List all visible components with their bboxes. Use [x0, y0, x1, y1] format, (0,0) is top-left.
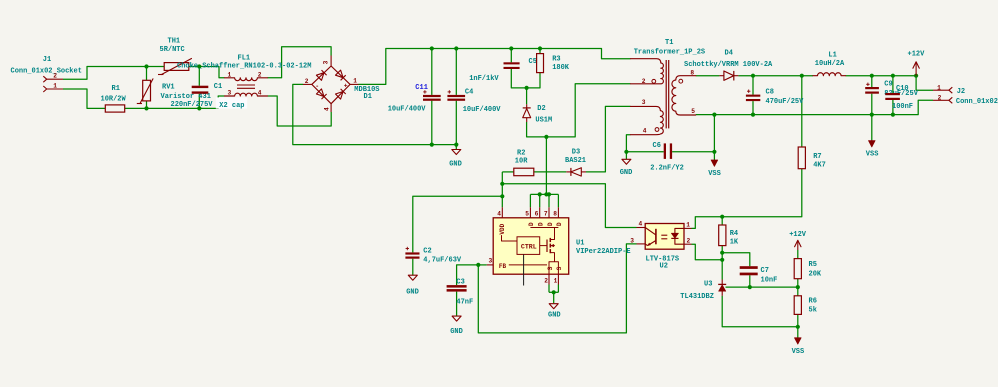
wire bottom primary rail R1 to FL1 pin3	[125, 96, 225, 108]
wire J1 pin2 to top primary rail	[63, 67, 164, 80]
U1 pin stub 8	[557, 207, 559, 218]
ground symbol at DC minus rail	[452, 150, 461, 155]
svg-text:C8: C8	[766, 89, 774, 97]
T1 secondary polarity dot	[679, 79, 683, 83]
svg-text:C10: C10	[896, 85, 909, 93]
svg-text:C5: C5	[529, 58, 537, 66]
svg-text:R7: R7	[813, 153, 821, 161]
wire C3 bottom to GND	[456, 292, 458, 317]
svg-text:R1: R1	[112, 85, 120, 93]
svg-text:C11: C11	[415, 84, 428, 92]
svg-text:2: 2	[258, 71, 262, 78]
junction drain bus pin7	[547, 192, 551, 196]
wire TL431 anode to VSS node	[722, 296, 798, 327]
svg-text:10uH/2A: 10uH/2A	[815, 60, 845, 68]
junction DC rail at C5	[509, 46, 513, 50]
svg-text:D3: D3	[572, 149, 580, 157]
resistor R7	[798, 147, 805, 169]
wire U1 pin7 stub	[548, 194, 550, 207]
U1 internal MOSFET	[540, 228, 555, 259]
svg-text:BAS21: BAS21	[565, 157, 586, 165]
wire snubber node to D2 cathode	[526, 88, 528, 104]
svg-text:4: 4	[639, 221, 643, 228]
svg-text:4,7uF/63V: 4,7uF/63V	[423, 257, 462, 265]
capacitor C9	[865, 83, 879, 94]
capacitor C7	[740, 266, 758, 275]
svg-text:2.2nF/Y2: 2.2nF/Y2	[650, 164, 684, 172]
svg-text:47nF: 47nF	[456, 299, 473, 307]
U2 internal coupling arrows	[661, 235, 667, 239]
svg-text:FB: FB	[499, 263, 507, 270]
U1 pin name D x4	[528, 222, 563, 226]
U1 pin name S x2	[547, 266, 563, 270]
junction R4 bottom opto pin2	[720, 258, 724, 262]
svg-text:D: D	[547, 222, 554, 226]
wire bridge minus to DC minus rail	[293, 84, 457, 144]
optocoupler U2 LTV-817S	[645, 224, 684, 250]
resistor R3	[537, 54, 544, 73]
svg-text:8: 8	[690, 70, 694, 77]
wire drain node to U1 drain pins	[545, 137, 547, 195]
capacitor C5	[504, 62, 520, 69]
wire C11 bottom	[431, 101, 433, 145]
wire FB node to C3	[457, 265, 479, 285]
capacitor C11	[423, 90, 441, 101]
svg-text:J1: J1	[43, 56, 51, 64]
wire R4 bottom to TL431 cathode	[721, 246, 723, 280]
junction +12V rail at C8	[751, 74, 755, 78]
U1 pin stub 5	[529, 207, 531, 218]
wire TL431 ref line to divider node	[726, 286, 798, 288]
junction FB node	[476, 263, 480, 267]
U1 internal drain bus	[530, 227, 558, 229]
junction top rail at C1	[197, 64, 201, 68]
svg-text:S: S	[547, 266, 554, 270]
junction T1 pin4 GND node	[624, 150, 628, 154]
wire VSS stub below R6	[797, 327, 799, 338]
svg-text:D: D	[538, 222, 545, 226]
wire R5 top stub	[797, 250, 799, 259]
wire R7 top from +12V rail	[801, 76, 803, 147]
svg-text:5: 5	[691, 108, 695, 115]
svg-text:2: 2	[938, 94, 942, 101]
svg-text:U1: U1	[576, 239, 584, 247]
wire R4 top stub	[721, 217, 723, 225]
svg-text:X2 cap: X2 cap	[219, 102, 244, 110]
junction drain bus feed	[544, 192, 548, 196]
resistor R4	[719, 225, 726, 246]
bridge rectifier D1	[303, 56, 359, 113]
wire C7 top link	[722, 253, 750, 267]
svg-text:2: 2	[53, 73, 57, 80]
wire C6 right to VSS node	[672, 151, 714, 153]
svg-text:4: 4	[643, 127, 647, 134]
junction VDD at opto line	[500, 182, 504, 186]
junction ref line at C7	[748, 285, 752, 289]
wire R5 bottom to divider node	[797, 279, 799, 287]
svg-text:20K: 20K	[809, 270, 822, 278]
junction +12V rail at C9	[870, 74, 874, 78]
junction U1 source GND	[552, 290, 556, 294]
svg-text:Choke_Schaffner_RN102-0.3-02-1: Choke_Schaffner_RN102-0.3-02-12M	[177, 62, 311, 70]
U1 pin stub 2 source	[548, 274, 550, 284]
svg-text:1: 1	[228, 71, 232, 78]
junction +12V rail at R7	[800, 74, 804, 78]
svg-text:FL1: FL1	[238, 54, 251, 62]
svg-text:3: 3	[323, 60, 330, 64]
svg-text:R6: R6	[809, 297, 817, 305]
U2 pin stub 4	[637, 227, 646, 229]
svg-text:Conn_01x02_Socket: Conn_01x02_Socket	[11, 67, 82, 75]
U2 internal LED	[671, 228, 684, 244]
junction DC minus rail at C4 GND	[454, 143, 458, 147]
svg-text:-: -	[315, 83, 319, 90]
wire C10 top	[892, 76, 894, 93]
svg-text:4K7: 4K7	[813, 162, 826, 170]
U2 pin stub 2	[684, 243, 692, 245]
inductor L1	[813, 73, 846, 76]
svg-text:1: 1	[353, 78, 357, 85]
svg-text:R2: R2	[517, 150, 525, 158]
wire C5 bottom to R3 bottom	[511, 69, 540, 88]
power symbol +12V at R5	[795, 240, 801, 250]
wire T1 pin4 to GND/C6 node	[626, 135, 630, 152]
wire VSS stub	[713, 152, 715, 160]
ground symbol at C3	[452, 316, 461, 321]
svg-text:D: D	[556, 222, 563, 226]
connector J2	[933, 87, 952, 103]
capacitor C3	[447, 285, 467, 292]
wire optocoupler pin2 to R4 bottom node	[692, 244, 723, 260]
junction drain bus pin6	[538, 192, 542, 196]
svg-text:GND: GND	[406, 289, 419, 297]
wire secondary return rail to J2 pin2	[696, 100, 933, 114]
svg-text:1: 1	[937, 84, 941, 91]
wire C6 left	[626, 151, 663, 153]
junction R6 bottom VSS node	[796, 325, 800, 329]
U1 internal source link	[549, 259, 558, 275]
capacitor C2	[405, 247, 419, 259]
svg-text:8: 8	[553, 211, 557, 218]
U1 pin stub 4 VDD	[501, 207, 503, 218]
svg-text:5R/NTC: 5R/NTC	[160, 46, 185, 54]
svg-text:VSS: VSS	[708, 170, 721, 178]
power symbol VSS at C9	[869, 140, 876, 147]
svg-text:D1: D1	[364, 93, 372, 101]
wire D3 anode to T1 pin3	[586, 106, 631, 171]
wire U1 pin6 stub	[539, 194, 541, 207]
wire VDD to R2 left	[502, 171, 514, 173]
wire C5 top	[510, 49, 512, 63]
bridge diode bottom-right	[336, 89, 346, 99]
U2 pin stub 3	[637, 243, 646, 245]
svg-text:VDD: VDD	[499, 223, 506, 234]
svg-text:R5: R5	[809, 261, 817, 269]
diode D3	[566, 168, 586, 176]
svg-text:GND: GND	[548, 312, 561, 320]
svg-text:5: 5	[525, 211, 529, 218]
wire FB node to optocoupler emitter	[478, 244, 636, 333]
junction secondary return at C10	[891, 113, 895, 117]
svg-text:RV1: RV1	[162, 83, 175, 91]
bridge diode top-left	[316, 70, 326, 80]
ground symbol at T1 pin4	[622, 159, 631, 164]
junction VDD at C2 line	[500, 194, 504, 198]
svg-text:T1: T1	[665, 39, 673, 47]
svg-text:Transformer_1P_2S: Transformer_1P_2S	[634, 49, 705, 57]
U2 internal phototransistor	[645, 228, 656, 246]
choke FL1	[225, 78, 268, 96]
shunt reference U3 TL431DBZ	[718, 280, 726, 296]
wire FB pin stub	[478, 264, 487, 266]
svg-text:3: 3	[630, 237, 634, 244]
bridge diode top-right	[336, 70, 346, 80]
junction feedback node R4/R7/opto	[720, 215, 724, 219]
T1 aux winding pins 3-4	[631, 106, 664, 134]
svg-text:U2: U2	[660, 262, 668, 270]
wire U1 pin5 stub	[529, 194, 531, 207]
U1 internal control line	[523, 254, 525, 285]
svg-text:Conn_01x02_S: Conn_01x02_S	[956, 98, 998, 106]
wire FL1 pin2 to bridge AC top	[268, 47, 332, 78]
thermistor TH1	[158, 59, 192, 75]
U1 internal VDD hook	[502, 236, 518, 242]
svg-text:VSS: VSS	[792, 348, 805, 356]
svg-text:GND: GND	[450, 328, 463, 336]
svg-text:100nF: 100nF	[892, 103, 913, 111]
junction secondary return at C9	[870, 113, 874, 117]
svg-text:180K: 180K	[552, 64, 570, 72]
junction R4 bottom C7 link	[720, 251, 724, 255]
varistor RV1	[137, 79, 153, 104]
junction snubber bottom at D2	[525, 86, 529, 90]
svg-text:5k: 5k	[809, 307, 817, 315]
wire T1 pin8 to D4	[696, 75, 720, 77]
svg-text:D4: D4	[725, 50, 733, 58]
svg-text:2: 2	[687, 238, 691, 245]
resistor R2	[514, 168, 534, 176]
wire C11 top	[431, 49, 433, 95]
svg-text:L1: L1	[828, 52, 836, 60]
svg-text:VIPer22ADIP-E: VIPer22ADIP-E	[576, 248, 631, 256]
wire VSS branch from secondary return rail	[713, 115, 715, 152]
wire U1 drain pin bus	[530, 193, 558, 195]
resistor R1	[105, 105, 124, 112]
wire R6 top	[797, 287, 799, 296]
capacitor C10	[885, 93, 900, 100]
svg-text:1: 1	[53, 82, 57, 89]
wire C4 top	[455, 49, 457, 95]
svg-text:C6: C6	[653, 142, 661, 150]
resistor R6	[794, 296, 801, 315]
svg-text:4: 4	[324, 107, 331, 111]
svg-text:C3: C3	[456, 278, 464, 286]
junction top rail at RV1	[144, 64, 148, 68]
junction divider node R5/R6	[796, 285, 800, 289]
wire U1 source pins to GND	[548, 285, 550, 293]
wire optocoupler pin1 to feedback node	[692, 217, 723, 229]
wire C8 top	[752, 76, 754, 95]
svg-text:C1: C1	[214, 83, 222, 91]
svg-text:TH1: TH1	[168, 37, 181, 45]
svg-text:3: 3	[489, 257, 493, 264]
svg-text:+12V: +12V	[908, 50, 926, 58]
U1 pin stub 7	[548, 207, 550, 218]
power symbol VSS at R6	[795, 338, 802, 344]
svg-text:U3: U3	[704, 281, 712, 289]
wire C9 top	[871, 76, 873, 87]
wire RV1 top	[146, 67, 148, 81]
capacitor C1	[192, 86, 209, 94]
junction DC minus rail at C11	[430, 143, 434, 147]
svg-text:1K: 1K	[730, 239, 739, 247]
svg-text:3: 3	[228, 90, 232, 97]
wire VDD to optocoupler collector	[502, 184, 636, 228]
wire C10 bottom	[892, 100, 894, 115]
junction +12V rail at J2	[914, 74, 918, 78]
svg-text:C9: C9	[884, 81, 892, 89]
wire RV1 bottom	[146, 101, 148, 109]
svg-text:GND: GND	[449, 161, 462, 169]
wire R7 bottom to feedback node	[722, 169, 802, 217]
svg-text:TL431DBZ: TL431DBZ	[680, 293, 714, 301]
svg-text:D2: D2	[537, 105, 545, 113]
svg-text:Schottky/VRRM 100V-2A: Schottky/VRRM 100V-2A	[684, 61, 773, 69]
wire D4 to C8 node to L1	[738, 75, 813, 77]
wire C2 top to VDD node	[413, 196, 503, 252]
svg-text:VSS: VSS	[866, 150, 879, 158]
svg-text:2: 2	[544, 277, 548, 284]
U1 pin stub 3 FB	[487, 264, 493, 266]
svg-text:10R: 10R	[515, 158, 528, 166]
junction drain node at D2 line	[544, 135, 548, 139]
svg-text:6: 6	[535, 211, 539, 218]
wire GND stub at DC minus rail	[455, 145, 457, 150]
junction secondary return at VSS branch	[712, 113, 716, 117]
U2 pin stub 1	[684, 227, 692, 229]
svg-text:US1M: US1M	[535, 116, 552, 124]
svg-text:Varistor 431: Varistor 431	[161, 93, 211, 101]
junction C6 VSS node	[712, 150, 716, 154]
junction bottom rail at C1	[197, 106, 201, 110]
transformer T1	[666, 60, 669, 128]
wire FL1 pin4 to bridge AC bottom	[268, 96, 332, 126]
wire D2 anode to drain node	[527, 84, 631, 137]
T1 primary winding pins 1-2	[631, 59, 664, 84]
svg-text:10uF/400V: 10uF/400V	[388, 105, 427, 113]
junction +12V rail at C10	[891, 74, 895, 78]
wire U1 pin8 stub	[557, 194, 559, 207]
svg-text:10R/2W: 10R/2W	[101, 95, 127, 103]
wire C2 bottom to GND	[412, 259, 414, 276]
U1 internal FB line	[509, 264, 547, 266]
wire C9 bottom	[871, 94, 873, 115]
svg-text:D: D	[528, 222, 535, 226]
wire L1 to +12V node to J2 pin1	[846, 76, 934, 91]
svg-text:C2: C2	[423, 247, 431, 255]
wire VDD node vertical	[501, 172, 503, 207]
svg-text:7: 7	[544, 211, 548, 218]
wire C1 top	[198, 67, 200, 86]
wire C8 bottom	[752, 101, 754, 115]
svg-text:10nF: 10nF	[761, 277, 778, 285]
svg-text:J2: J2	[957, 88, 965, 96]
wire C1 bottom	[198, 94, 200, 109]
capacitor C6	[664, 143, 672, 159]
wire R2 right to D3 cathode	[534, 171, 567, 173]
highlight box X2 cap	[216, 97, 247, 108]
wire C7 bottom to ref line	[749, 275, 751, 287]
U1 pin stub 1 source	[557, 274, 559, 284]
capacitor C4	[447, 90, 465, 101]
svg-text:R4: R4	[730, 230, 738, 238]
junction DC rail at C4	[454, 46, 458, 50]
T1 primary polarity dot	[652, 79, 656, 83]
ground symbol at C2	[408, 275, 417, 280]
svg-text:4: 4	[497, 211, 501, 218]
power symbol +12V at J2	[913, 62, 919, 76]
connector J1	[43, 76, 63, 92]
svg-text:CTRL: CTRL	[521, 243, 537, 250]
junction DC rail at C11	[430, 46, 434, 50]
diode D4	[719, 71, 738, 81]
svg-text:1nF/1kV: 1nF/1kV	[469, 75, 499, 83]
U1 pin stub 6	[539, 207, 541, 218]
U1 internal CTRL block	[517, 237, 540, 255]
svg-text:2: 2	[305, 78, 309, 85]
svg-text:+12V: +12V	[789, 231, 807, 239]
capacitor C8	[746, 90, 760, 102]
svg-text:220nF/275V: 220nF/275V	[171, 101, 214, 109]
wire VSS stub below C9	[871, 115, 873, 140]
wire TH1 to FL1 pin1	[189, 67, 225, 78]
junction secondary return at C8	[751, 113, 755, 117]
svg-text:10uF/400V: 10uF/400V	[463, 106, 502, 114]
svg-text:4: 4	[258, 90, 262, 97]
svg-text:1: 1	[554, 277, 558, 284]
controller U1 VIPer22ADIP-E	[493, 218, 569, 274]
svg-text:R3: R3	[552, 56, 560, 64]
svg-text:GND: GND	[620, 169, 633, 177]
diode D2	[523, 104, 531, 122]
svg-text:C7: C7	[761, 267, 769, 275]
power symbol VSS at C6	[711, 160, 718, 167]
wire GND stub at T1 pin4	[625, 152, 627, 160]
ground symbol at U1 source	[549, 304, 558, 309]
svg-text:2: 2	[642, 78, 646, 85]
wire R3 top	[539, 49, 541, 54]
resistor R5	[794, 259, 801, 279]
wire J1 pin1 to bottom primary rail	[63, 89, 105, 108]
svg-text:470uF/25V: 470uF/25V	[766, 98, 805, 106]
T1 secondary winding pins 8-5	[672, 76, 696, 115]
junction bottom rail at RV1	[144, 106, 148, 110]
svg-text:3: 3	[642, 99, 646, 106]
bridge diode bottom-left	[316, 89, 326, 99]
svg-text:1: 1	[686, 221, 690, 228]
wire R6 bottom to VSS	[797, 314, 799, 326]
T1 aux polarity dot	[655, 128, 659, 132]
svg-text:S: S	[556, 266, 563, 270]
svg-text:+: +	[344, 82, 348, 89]
junction DC rail at R3	[538, 46, 542, 50]
wire bridge plus to DC plus rail and T1 pin1	[359, 49, 631, 85]
svg-text:C4: C4	[465, 88, 473, 96]
wire C4 bottom	[455, 101, 457, 145]
